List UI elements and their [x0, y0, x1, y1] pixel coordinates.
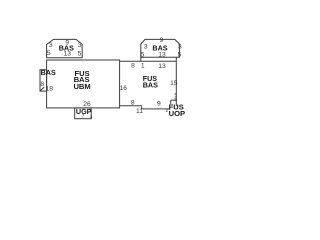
svg-text:5: 5 — [141, 51, 145, 58]
svg-text:8: 8 — [131, 62, 135, 69]
svg-text:3: 3 — [144, 43, 148, 50]
svg-text:3: 3 — [178, 43, 182, 50]
svg-text:5: 5 — [178, 51, 182, 58]
svg-text:BAS: BAS — [143, 80, 158, 89]
svg-text:5: 5 — [47, 50, 51, 57]
svg-text:13: 13 — [158, 51, 166, 58]
svg-text:18: 18 — [45, 85, 53, 92]
svg-text:1: 1 — [141, 62, 145, 69]
svg-text:BAS: BAS — [41, 68, 56, 77]
svg-text:UBM: UBM — [73, 82, 90, 91]
svg-text:15: 15 — [170, 80, 178, 87]
svg-text:3: 3 — [49, 42, 53, 49]
svg-text:8: 8 — [40, 81, 44, 88]
svg-text:5: 5 — [78, 51, 82, 58]
svg-text:9: 9 — [157, 100, 161, 107]
svg-text:11: 11 — [136, 108, 143, 115]
svg-text:8: 8 — [131, 99, 135, 106]
svg-text:16: 16 — [120, 85, 128, 92]
svg-text:3: 3 — [78, 42, 82, 49]
svg-text:UOP: UOP — [169, 109, 185, 118]
svg-text:13: 13 — [64, 51, 72, 58]
svg-text:13: 13 — [158, 63, 166, 70]
